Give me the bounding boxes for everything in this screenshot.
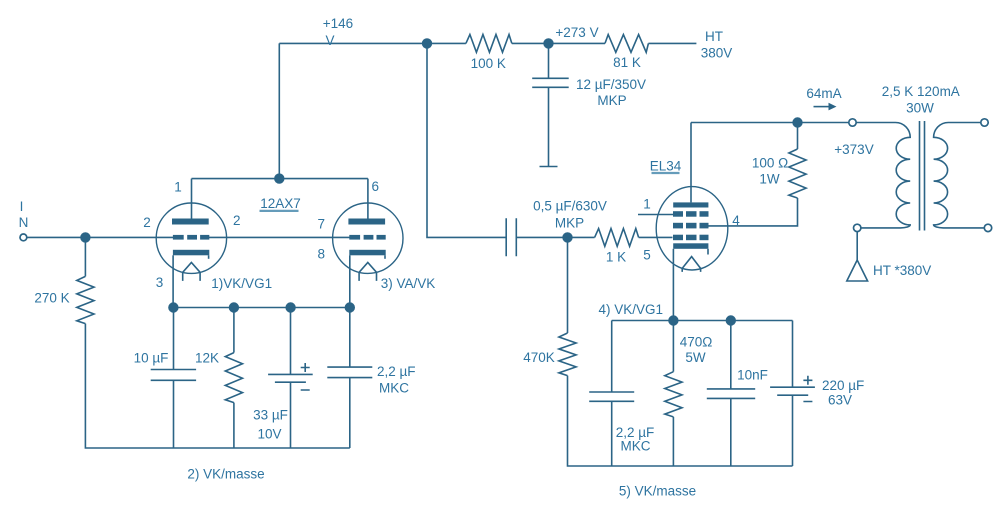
resistor 470K (559, 333, 576, 376)
wire junction down to R 270K (84, 237, 86, 276)
secondary winding (934, 123, 985, 228)
svg-text:1 K: 1 K (606, 250, 626, 265)
ground HT triangle (847, 260, 868, 281)
wire grid node down to 470K (567, 237, 569, 333)
resistor 81K (605, 35, 648, 53)
svg-text:+273 V: +273 V (555, 25, 598, 40)
terminal secondary top (981, 119, 988, 126)
svg-text:MKC: MKC (621, 439, 651, 454)
wire 270K down to ground rail (85, 324, 349, 448)
pentode cathode (673, 243, 708, 249)
svg-text:2,2 µF: 2,2 µF (377, 364, 416, 379)
capacitor 0,5uF/630V MKP coupling (506, 218, 516, 256)
node k3 (285, 302, 295, 312)
capacitor 33uF/10V electrolytic (290, 308, 292, 375)
triode V1a plate (172, 219, 209, 225)
svg-text:470Ω: 470Ω (680, 335, 713, 350)
svg-text:HT *380V: HT *380V (873, 263, 931, 278)
svg-text:12AX7: 12AX7 (260, 196, 301, 211)
svg-text:N: N (19, 215, 29, 230)
pentode plate (673, 202, 708, 207)
wire cathode rail EL34 (612, 320, 793, 322)
svg-text:1W: 1W (759, 172, 780, 187)
svg-text:2,5 K 120mA: 2,5 K 120mA (882, 84, 960, 99)
svg-text:10nF: 10nF (737, 368, 768, 383)
wire cathode rail tube section (173, 307, 349, 309)
svg-text:V: V (325, 33, 334, 48)
svg-text:30W: 30W (906, 101, 934, 116)
svg-text:64mA: 64mA (806, 86, 841, 101)
capacitor 2,2uF MKC left (349, 308, 351, 368)
wire 81K to HT (648, 42, 696, 44)
node plate rail (792, 117, 802, 127)
wire 470K to bottom rail (568, 376, 793, 466)
pentode grid row3 (673, 235, 683, 241)
node kB (726, 315, 736, 325)
svg-text:81 K: 81 K (613, 55, 641, 70)
svg-text:100 Ω: 100 Ω (752, 156, 788, 171)
triode V1a cathode (173, 250, 209, 256)
wire 1K to EL34 g1 (639, 236, 673, 238)
svg-text:3) VA/VK: 3) VA/VK (381, 276, 436, 291)
resistor 100R 1W (789, 149, 806, 198)
transformer core (920, 121, 925, 231)
triode V1b cathode (349, 250, 385, 256)
capacitor 220uF/63V electrolytic (792, 321, 794, 388)
capacitor 10nF (730, 321, 732, 389)
svg-text:12K: 12K (195, 351, 219, 366)
svg-text:100 K: 100 K (471, 56, 506, 71)
wire cap to ground (548, 87, 550, 166)
svg-text:12 µF/350V: 12 µF/350V (576, 77, 646, 92)
svg-text:1)VK/VG1: 1)VK/VG1 (211, 276, 272, 291)
svg-text:MKP: MKP (555, 216, 584, 231)
svg-text:5W: 5W (685, 350, 706, 365)
svg-text:4) VK/VG1: 4) VK/VG1 (599, 302, 664, 317)
svg-text:2) VK/masse: 2) VK/masse (187, 467, 264, 482)
input terminal (20, 234, 27, 241)
terminal secondary bottom (984, 224, 991, 231)
wire tube1 grid to tube2 grid (209, 236, 350, 238)
svg-text:EL34: EL34 (650, 159, 682, 174)
capacitor 10uF (173, 308, 175, 370)
resistor 470R 5W (672, 321, 674, 372)
svg-text:I: I (20, 199, 24, 214)
svg-text:7: 7 (318, 217, 326, 232)
wire arrow 64mA (814, 106, 830, 108)
svg-text:1: 1 (174, 180, 182, 195)
node +273V (543, 38, 553, 48)
node k2 (229, 302, 239, 312)
wire cap to grid node (516, 236, 594, 238)
svg-text:33 µF: 33 µF (253, 408, 288, 423)
capacitor 12uF/350V MKP (532, 78, 569, 87)
primary winding (856, 123, 910, 228)
wire pin1 stub (638, 214, 673, 216)
node input junction (80, 232, 90, 242)
svg-text:8: 8 (318, 247, 326, 262)
svg-text:10V: 10V (257, 427, 281, 442)
node top junction (422, 38, 432, 48)
triode V1a grid (173, 235, 184, 240)
resistor 1K (595, 229, 639, 247)
wire top junction down to coupling (427, 43, 506, 237)
svg-text:1: 1 (643, 197, 651, 212)
wire top rail +146 (279, 42, 466, 44)
node k4 (345, 302, 355, 312)
wire 100K to +273 node (512, 42, 605, 44)
wire plate rail tube1-tube2 (192, 178, 368, 180)
pentode grid row2 (673, 223, 683, 229)
svg-text:470K: 470K (523, 350, 555, 365)
pentode heater (682, 257, 700, 272)
node k1 (168, 302, 178, 312)
pentode ellipse (656, 187, 728, 270)
svg-text:3: 3 (156, 275, 164, 290)
wire input to tube1 grid (27, 236, 174, 238)
svg-text:+373V: +373V (834, 142, 873, 157)
svg-text:HT: HT (705, 29, 723, 44)
svg-text:270 K: 270 K (34, 291, 69, 306)
wire +273 down to cap (548, 43, 550, 78)
triode V1a heater (183, 263, 200, 281)
svg-text:380V: 380V (701, 46, 733, 61)
triode V1b heater (359, 263, 376, 281)
triode V1b grid (349, 235, 360, 240)
svg-text:5: 5 (643, 248, 651, 263)
wire vertical +146 to plates (278, 43, 280, 178)
svg-text:MKC: MKC (379, 381, 409, 396)
svg-text:MKP: MKP (597, 93, 626, 108)
node plate rail junction (274, 173, 284, 183)
svg-text:0,5 µF/630V: 0,5 µF/630V (533, 199, 607, 214)
terminal primary bottom (854, 224, 861, 231)
node kA (668, 315, 678, 325)
triode V1b plate (348, 219, 385, 225)
wire primary bottom to HT triangle (856, 231, 858, 260)
resistor 100K (466, 35, 512, 53)
wire plate rail EL34 (691, 122, 849, 124)
svg-text:+146: +146 (323, 16, 353, 31)
pentode grid row1 (673, 211, 683, 217)
terminal primary top (849, 119, 856, 126)
svg-text:6: 6 (372, 179, 380, 194)
svg-text:220 µF: 220 µF (822, 378, 864, 393)
svg-text:63V: 63V (828, 393, 852, 408)
svg-text:10 µF: 10 µF (134, 351, 169, 366)
ground (540, 166, 558, 168)
svg-text:2: 2 (143, 215, 151, 230)
resistor 270K (77, 276, 94, 323)
svg-text:5) VK/masse: 5) VK/masse (619, 484, 696, 499)
triode V1a circle (156, 203, 226, 273)
capacitor 2,2uF MKC right (611, 321, 613, 393)
svg-text:2: 2 (233, 213, 241, 228)
node grid junction (562, 232, 572, 242)
wire pin4 to 100R (708, 198, 797, 226)
resistor 12K (233, 308, 235, 353)
triode V1b circle (333, 203, 403, 273)
